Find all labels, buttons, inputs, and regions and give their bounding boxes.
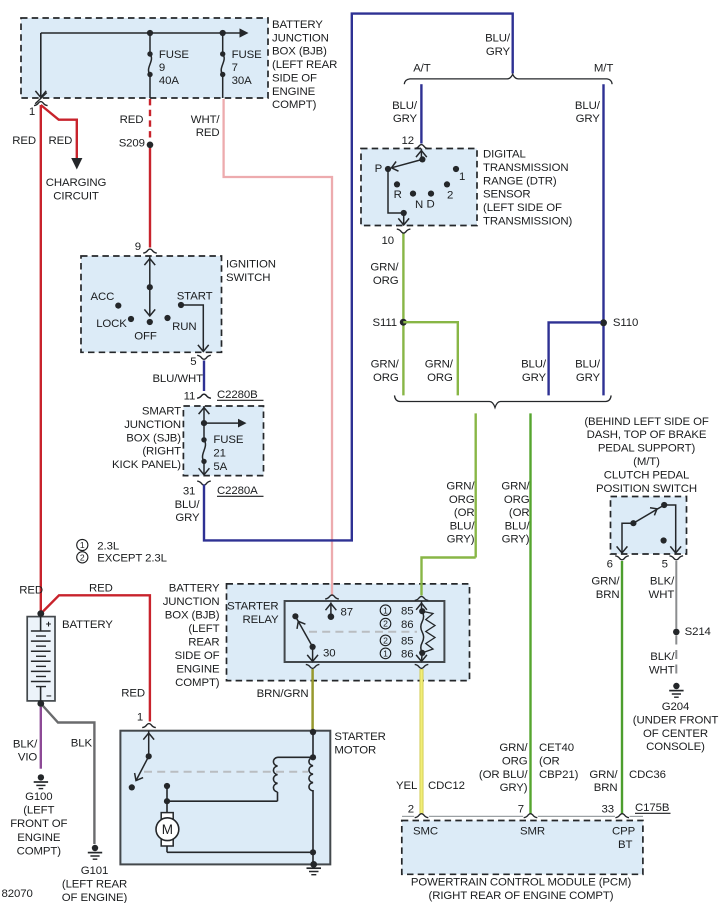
svg-text:GRN/: GRN/ (370, 262, 399, 274)
svg-text:(OR BLU/: (OR BLU/ (479, 769, 529, 781)
svg-text:DIGITAL: DIGITAL (483, 149, 526, 161)
svg-text:KICK PANEL): KICK PANEL) (112, 459, 181, 471)
svg-text:BATTERY: BATTERY (272, 19, 323, 31)
svg-text:ORG: ORG (504, 494, 530, 506)
svg-text:2.3L: 2.3L (97, 540, 119, 552)
svg-text:C175B: C175B (635, 802, 669, 814)
svg-text:COMPT): COMPT) (17, 846, 62, 858)
svg-text:M/T: M/T (594, 63, 613, 75)
svg-text:EXCEPT 2.3L: EXCEPT 2.3L (97, 553, 167, 565)
svg-text:7: 7 (518, 803, 524, 815)
svg-text:FUSE: FUSE (213, 434, 243, 446)
svg-text:CHARGING: CHARGING (46, 177, 107, 189)
svg-text:BLK: BLK (71, 738, 93, 750)
svg-text:SWITCH: SWITCH (226, 272, 270, 284)
svg-text:GRN/: GRN/ (499, 742, 528, 754)
svg-text:2: 2 (383, 636, 388, 646)
svg-text:(LEFT REAR: (LEFT REAR (272, 59, 337, 71)
svg-text:R: R (394, 189, 402, 201)
svg-text:1: 1 (383, 605, 388, 615)
svg-text:BLU/: BLU/ (175, 499, 201, 511)
svg-text:RANGE (DTR): RANGE (DTR) (483, 175, 557, 187)
svg-text:JUNCTION: JUNCTION (124, 419, 181, 431)
svg-text:(OR: (OR (454, 507, 475, 519)
svg-text:ORG: ORG (449, 494, 475, 506)
svg-text:CPP: CPP (612, 826, 635, 838)
svg-text:CDC36: CDC36 (629, 769, 666, 781)
svg-text:SIDE OF: SIDE OF (175, 650, 220, 662)
svg-text:(M/T): (M/T) (633, 456, 660, 468)
svg-text:DASH, TOP OF BRAKE: DASH, TOP OF BRAKE (587, 429, 707, 441)
svg-text:9: 9 (135, 241, 141, 253)
svg-text:CDC12: CDC12 (428, 780, 465, 792)
svg-text:(BEHIND LEFT SIDE OF: (BEHIND LEFT SIDE OF (584, 416, 709, 428)
svg-text:OFF: OFF (134, 330, 157, 342)
svg-text:GRN/: GRN/ (591, 576, 620, 588)
svg-text:30: 30 (323, 647, 335, 659)
svg-text:VIO: VIO (18, 752, 38, 764)
svg-text:ENGINE: ENGINE (176, 664, 220, 676)
svg-text:PEDAL SUPPORT): PEDAL SUPPORT) (598, 443, 696, 455)
svg-text:GRN/: GRN/ (589, 769, 618, 781)
svg-text:CLUTCH PEDAL: CLUTCH PEDAL (604, 469, 690, 481)
svg-text:86: 86 (401, 649, 413, 661)
svg-text:RED: RED (12, 135, 36, 147)
svg-text:(RIGHT REAR OF ENGINE COMPT): (RIGHT REAR OF ENGINE COMPT) (429, 890, 614, 902)
svg-text:BLU/: BLU/ (485, 33, 511, 45)
svg-text:1: 1 (383, 649, 388, 659)
svg-text:BATTERY: BATTERY (62, 619, 113, 631)
svg-text:85: 85 (401, 605, 413, 617)
svg-text:LOCK: LOCK (96, 318, 127, 330)
svg-text:BLU/: BLU/ (505, 520, 531, 532)
svg-text:BLU/WHT: BLU/WHT (152, 373, 203, 385)
svg-text:SMART: SMART (142, 406, 181, 418)
svg-text:BRN/GRN: BRN/GRN (257, 688, 309, 700)
svg-text:BT: BT (618, 839, 632, 851)
svg-text:G100: G100 (25, 791, 52, 803)
svg-text:GRY): GRY) (500, 782, 528, 794)
svg-text:ORG: ORG (373, 275, 399, 287)
svg-text:ORG: ORG (502, 755, 528, 767)
svg-text:GRY: GRY (175, 512, 200, 524)
svg-text:A/T: A/T (413, 63, 431, 75)
svg-text:GRN/: GRN/ (501, 480, 530, 492)
svg-text:WHT: WHT (649, 589, 675, 601)
svg-text:2: 2 (447, 190, 453, 202)
svg-text:BLK/: BLK/ (650, 651, 675, 663)
svg-text:FRONT OF: FRONT OF (10, 818, 67, 830)
svg-text:RELAY: RELAY (242, 614, 279, 626)
svg-text:WHT/: WHT/ (191, 114, 221, 126)
svg-text:+: + (46, 619, 52, 630)
svg-text:WHT: WHT (649, 664, 675, 676)
svg-text:BOX (BJB): BOX (BJB) (272, 46, 327, 58)
svg-text:POSITION SWITCH: POSITION SWITCH (596, 483, 697, 495)
svg-text:5A: 5A (213, 461, 227, 473)
svg-text:BATTERY: BATTERY (169, 583, 220, 595)
svg-text:2: 2 (80, 552, 85, 562)
svg-text:(LEFT SIDE OF: (LEFT SIDE OF (483, 202, 562, 214)
svg-text:CBP21): CBP21) (539, 769, 579, 781)
svg-text:(OR: (OR (509, 507, 530, 519)
svg-text:9: 9 (159, 62, 165, 74)
svg-text:GRY): GRY) (447, 534, 475, 546)
svg-text:C2280B: C2280B (217, 389, 258, 401)
svg-text:COMPT): COMPT) (272, 99, 317, 111)
svg-text:ORG: ORG (373, 372, 399, 384)
svg-text:SIDE OF: SIDE OF (272, 73, 317, 85)
svg-text:BLU/: BLU/ (575, 359, 601, 371)
svg-text:87: 87 (341, 607, 353, 619)
svg-text:GRY: GRY (576, 113, 601, 125)
svg-text:GRY): GRY) (502, 534, 530, 546)
svg-text:S209: S209 (119, 138, 145, 150)
svg-text:FUSE: FUSE (232, 49, 262, 61)
svg-text:33: 33 (602, 803, 614, 815)
svg-text:BLU/: BLU/ (392, 100, 418, 112)
svg-text:2: 2 (408, 803, 414, 815)
svg-text:BRN: BRN (594, 782, 618, 794)
svg-text:M: M (162, 822, 173, 837)
svg-text:1: 1 (80, 540, 85, 550)
svg-text:ENGINE: ENGINE (17, 832, 61, 844)
svg-text:N: N (415, 199, 423, 211)
svg-text:BOX (SJB): BOX (SJB) (126, 432, 181, 444)
svg-text:40A: 40A (159, 75, 179, 87)
svg-text:ORG: ORG (427, 372, 453, 384)
svg-text:JUNCTION: JUNCTION (272, 32, 329, 44)
svg-text:86: 86 (401, 619, 413, 631)
svg-text:30A: 30A (232, 75, 252, 87)
svg-text:OF CENTER: OF CENTER (643, 728, 708, 740)
svg-text:RED: RED (89, 583, 113, 595)
svg-text:12: 12 (402, 135, 414, 147)
svg-text:TRANSMISSION): TRANSMISSION) (483, 215, 573, 227)
svg-text:P: P (375, 163, 383, 175)
svg-text:BLU/: BLU/ (521, 359, 547, 371)
svg-text:1: 1 (137, 712, 143, 724)
svg-text:GRY: GRY (576, 372, 601, 384)
svg-text:RED: RED (121, 688, 145, 700)
svg-text:S110: S110 (613, 317, 638, 329)
svg-text:BLK/: BLK/ (13, 738, 38, 750)
svg-text:POWERTRAIN CONTROL MODULE (PCM: POWERTRAIN CONTROL MODULE (PCM) (411, 877, 632, 889)
svg-text:OF ENGINE): OF ENGINE) (62, 892, 128, 903)
svg-text:RED: RED (196, 127, 220, 139)
svg-text:(UNDER FRONT: (UNDER FRONT (633, 714, 719, 726)
svg-text:JUNCTION: JUNCTION (163, 596, 220, 608)
svg-text:BLU/: BLU/ (450, 520, 476, 532)
svg-text:10: 10 (382, 235, 394, 247)
svg-text:MOTOR: MOTOR (334, 745, 376, 757)
svg-text:RED: RED (49, 135, 73, 147)
svg-text:5: 5 (190, 356, 196, 368)
svg-text:C2280A: C2280A (217, 485, 258, 497)
svg-text:5: 5 (662, 558, 668, 570)
svg-text:YEL: YEL (396, 780, 417, 792)
svg-text:11: 11 (184, 391, 196, 403)
svg-text:ENGINE: ENGINE (272, 86, 316, 98)
svg-text:(LEFT REAR: (LEFT REAR (62, 879, 127, 891)
svg-text:GRN/: GRN/ (371, 359, 400, 371)
svg-text:GRN/: GRN/ (425, 359, 454, 371)
svg-text:2: 2 (383, 619, 388, 629)
svg-text:GRY: GRY (393, 113, 418, 125)
svg-text:COMPT): COMPT) (175, 677, 220, 689)
svg-text:CIRCUIT: CIRCUIT (53, 191, 99, 203)
svg-text:D: D (427, 199, 435, 211)
svg-text:START: START (177, 290, 213, 302)
svg-text:G101: G101 (81, 865, 108, 877)
svg-text:BOX (BJB): BOX (BJB) (165, 610, 220, 622)
svg-text:G204: G204 (662, 701, 689, 713)
svg-text:SMC: SMC (413, 826, 438, 838)
svg-text:21: 21 (213, 448, 225, 460)
svg-text:IGNITION: IGNITION (226, 259, 276, 271)
svg-text:1: 1 (459, 171, 465, 183)
svg-text:RUN: RUN (172, 321, 196, 333)
svg-text:82070: 82070 (2, 888, 33, 900)
svg-text:31: 31 (183, 486, 195, 498)
svg-text:BLK/: BLK/ (650, 576, 675, 588)
svg-text:CONSOLE): CONSOLE) (646, 741, 705, 753)
svg-text:BLU/: BLU/ (575, 100, 601, 112)
svg-text:6: 6 (607, 558, 613, 570)
svg-text:GRY: GRY (522, 372, 547, 384)
svg-text:RED: RED (120, 114, 144, 126)
svg-text:(LEFT: (LEFT (188, 623, 219, 635)
svg-text:REAR: REAR (188, 637, 219, 649)
svg-text:SMR: SMR (520, 826, 545, 838)
svg-text:(LEFT: (LEFT (23, 805, 54, 817)
svg-text:(OR: (OR (539, 755, 560, 767)
svg-text:RED: RED (19, 585, 43, 597)
svg-text:GRN/: GRN/ (446, 480, 475, 492)
svg-text:CET40: CET40 (539, 742, 574, 754)
svg-text:−: − (46, 691, 52, 702)
svg-text:ACC: ACC (91, 291, 115, 303)
svg-text:GRY: GRY (486, 46, 511, 58)
svg-text:TRANSMISSION: TRANSMISSION (483, 162, 569, 174)
svg-text:STARTER: STARTER (227, 601, 278, 613)
svg-text:S111: S111 (372, 317, 397, 329)
svg-text:7: 7 (232, 62, 238, 74)
svg-text:S214: S214 (685, 626, 711, 638)
svg-text:(RIGHT: (RIGHT (142, 446, 181, 458)
svg-text:STARTER: STARTER (334, 731, 385, 743)
svg-text:BRN: BRN (596, 589, 620, 601)
svg-text:85: 85 (401, 636, 413, 648)
svg-text:1: 1 (29, 106, 35, 118)
svg-text:FUSE: FUSE (159, 49, 189, 61)
svg-text:SENSOR: SENSOR (483, 189, 531, 201)
